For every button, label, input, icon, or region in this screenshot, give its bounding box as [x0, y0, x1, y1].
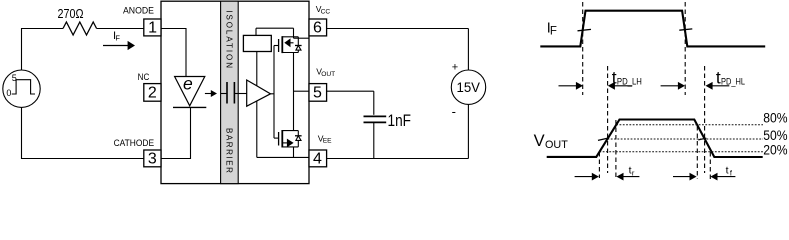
svg-text:4: 4 — [313, 151, 322, 168]
svg-text:PD_HL: PD_HL — [721, 76, 745, 87]
svg-text:50%: 50% — [763, 128, 787, 143]
svg-text:6: 6 — [313, 20, 322, 37]
svg-text:3: 3 — [148, 151, 157, 168]
svg-text:15V: 15V — [457, 79, 481, 95]
svg-text:0: 0 — [6, 88, 11, 98]
svg-text:OUT: OUT — [321, 71, 335, 78]
svg-text:F: F — [550, 25, 557, 37]
svg-text:20%: 20% — [763, 143, 787, 158]
svg-text:t: t — [726, 165, 729, 177]
svg-text:+: + — [452, 62, 458, 74]
svg-text:1nF: 1nF — [388, 112, 412, 130]
svg-text:ANODE: ANODE — [123, 5, 154, 16]
svg-text:80%: 80% — [763, 110, 787, 125]
svg-text:BARRIER: BARRIER — [224, 128, 233, 174]
svg-text:e: e — [183, 73, 193, 93]
svg-text:CC: CC — [321, 9, 331, 16]
svg-text:5: 5 — [313, 85, 322, 102]
svg-text:ISOLATION: ISOLATION — [224, 10, 233, 70]
svg-text:PD_LH: PD_LH — [617, 76, 642, 87]
svg-text:V: V — [534, 132, 545, 150]
svg-text:-: - — [452, 104, 456, 119]
svg-text:5: 5 — [12, 73, 17, 83]
svg-text:270Ω: 270Ω — [58, 6, 84, 21]
svg-text:2: 2 — [148, 85, 157, 102]
svg-text:OUT: OUT — [545, 139, 568, 151]
svg-text:F: F — [115, 34, 120, 43]
svg-text:EE: EE — [323, 138, 332, 145]
svg-text:1: 1 — [148, 20, 157, 37]
svg-text:CATHODE: CATHODE — [114, 138, 155, 149]
svg-text:NC: NC — [138, 72, 150, 83]
